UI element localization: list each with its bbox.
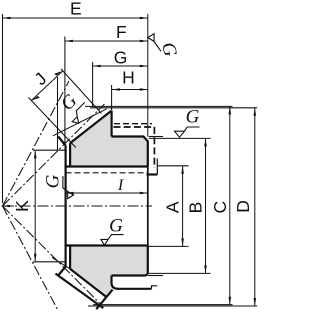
dimension C extension bottom [93,304,233,306]
dimension J extension line upper [61,69,102,114]
rim top line with chamfer [112,137,148,142]
svg-text:K: K [12,200,32,212]
pitch contact line steep lower (dash-dot) [3,206,58,310]
root line thin extension bottom [52,258,70,269]
pitch cone line lower (dash-dot) [3,206,102,305]
rim bottom line with round corner [112,272,148,276]
apex arrow on axis [3,205,15,207]
dimension G [93,65,148,67]
dimension E [3,17,148,19]
svg-text:I: I [117,177,124,194]
gear outline: hub front face [64,146,66,267]
svg-text:D: D [233,200,253,213]
dimension F [65,40,148,42]
dimension B extension bottom [149,272,211,274]
dimension F extension line [64,37,66,146]
dimension K extension line bottom [33,261,66,263]
svg-text:F: F [116,22,127,42]
gray left face bottom [69,246,71,269]
svg-text:G: G [109,216,123,237]
dimension D line [254,108,256,306]
keyway step vertical [156,159,158,175]
dimension D extension top [90,107,257,109]
dimension H [112,89,148,91]
chamfer bottom-left [58,267,65,276]
centerline axis (dash-dot) [2,205,153,207]
hidden mating gear right edge (dashed) [153,127,155,168]
svg-text:H: H [122,68,135,88]
bottom back step jog [152,286,158,289]
svg-text:B: B [186,202,206,214]
gray left face top [69,143,71,166]
dimension J extension line lower [29,98,76,148]
rim bottom extension [148,275,163,277]
pitch contact line steep (dash-dot) [3,81,70,206]
back face extension line (upper, for E F G H) [147,14,149,137]
surface finish mark at left face [63,176,74,199]
tip cone line top (thin, tooth behind section) [53,109,107,136]
dimension K extension line top [33,149,66,151]
dimension B extension top [149,137,211,139]
bore bottom line [66,244,148,246]
dimension G extension line [92,62,94,107]
tip cone line bottom [56,274,104,309]
back face bottom [147,246,149,273]
svg-text:C: C [210,201,230,214]
chamfer top-left [58,137,65,146]
mystery extension line left of tooth [57,77,59,150]
root cone line top [70,111,112,144]
svg-text:G: G [42,174,63,188]
svg-text:G: G [114,48,128,68]
surface finish mark on back face (rotated, apex left) [148,34,161,52]
surface finish mark on tip cone line [69,102,92,125]
svg-text:E: E [70,0,82,19]
dimension K line [34,151,36,261]
keyway hidden line (dashed) [66,172,147,174]
gray gear body section (bottom half) [70,246,148,298]
svg-text:G: G [157,40,180,58]
surface finish mark on B extension [175,127,200,137]
bore top line [66,165,148,167]
dimension D extension bottom [88,305,257,307]
dimension A line [182,166,184,247]
svg-text:A: A [163,201,183,213]
small end face bottom [96,290,112,310]
surface finish mark on bore bottom [101,235,124,246]
dimension C extension top [85,105,233,107]
root cone line bottom [70,269,107,297]
gray gear body section (top half) [70,111,148,167]
dimension I [66,192,148,194]
keyway step horizontal [147,173,158,175]
rim top extension [149,136,163,138]
dimension J line [31,71,63,101]
back face across bore [147,167,149,246]
tip vertical bottom with root fillet [112,276,119,289]
back face top [147,141,149,167]
svg-text:G: G [57,90,82,115]
dimension A extension top [157,165,188,167]
dimension A extension bottom [148,245,189,247]
small end face vertical top [110,111,112,137]
dimension H extension line [111,85,113,110]
dimension E extension line at apex plane [2,14,4,203]
pitch cone line upper (dash-dot) [3,104,105,206]
svg-text:G: G [186,107,200,128]
hidden root back line top (dashed) [114,123,152,125]
hidden mating gear top edge (dashed) [114,126,155,128]
dimension B line [205,138,207,273]
bottom back step line [117,288,152,290]
dimension C line [229,106,231,304]
